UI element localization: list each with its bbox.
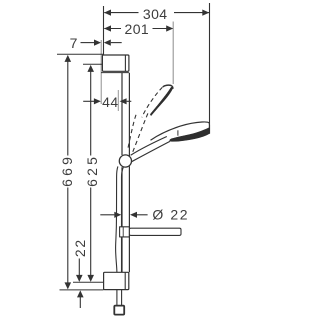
hand shower solid handle lower edge (132, 141, 170, 161)
hand shower dashed head spray face band (150, 87, 173, 116)
svg-text:22: 22 (72, 238, 88, 257)
top bracket lower flange line (101, 72, 129, 74)
extension line bar top level (83, 63, 102, 65)
dimension 22 bottom leader line (79, 297, 81, 309)
hose below bracket (117, 290, 122, 306)
rail tube right edge (128, 73, 130, 272)
hose end nut (114, 306, 124, 315)
dimension 625 line lower (90, 188, 92, 276)
bottom wall bracket (104, 272, 129, 289)
svg-text:4: 4 (110, 94, 118, 110)
dimension 625 line upper (90, 71, 92, 156)
hand shower solid handle upper edge (131, 137, 167, 156)
svg-text:4: 4 (102, 94, 110, 110)
extension line right (304 reference) (209, 3, 211, 134)
top wall bracket (102, 55, 128, 71)
dimension diameter 22 left arrow (114, 212, 121, 218)
svg-text:Ø 22: Ø 22 (152, 207, 189, 223)
hand shower solid head top outline (151, 122, 210, 140)
extension line gray (44 reference) (117, 90, 119, 111)
dimension 7 right arrow (104, 40, 111, 46)
dimension 201 left arrow (104, 25, 111, 31)
hose (116, 166, 124, 272)
svg-text:201: 201 (125, 21, 150, 37)
dimension 669 line upper (67, 61, 69, 156)
dimension diameter 22 line left (100, 214, 114, 216)
wire / rail tube left edge (121, 73, 123, 272)
dimension 7 line left (81, 42, 95, 44)
dimension 304 left arrow (104, 10, 111, 16)
dimension 669 top arrow (65, 55, 72, 62)
dimension diameter 22 line right (137, 214, 148, 216)
node pivot holder (119, 155, 131, 167)
svg-text:625: 625 (84, 154, 100, 187)
dimension 22 leader line (78, 259, 80, 276)
dimension 44 left arrow (83, 100, 94, 102)
dimension 201 line (104, 28, 173, 30)
svg-text:669: 669 (59, 154, 75, 187)
bottom bracket end cap line (124, 272, 126, 289)
hand shower head tick detail (177, 130, 179, 135)
extension line top (bracket top level) (57, 53, 103, 55)
extension line unit bottom level (60, 289, 104, 291)
hand shower dashed handle left edge (128, 115, 136, 150)
dimension 669 bottom arrow (65, 282, 72, 289)
dimension 201 right arrow (166, 25, 173, 31)
dimension 625 top arrow (87, 65, 94, 72)
extension line bar bottom level (73, 281, 104, 283)
hand shower dashed head left outline (142, 87, 163, 117)
top bracket end cap line (124, 55, 126, 71)
soap dish collar inner line (122, 227, 124, 237)
dimension diameter 22 right arrow (130, 212, 137, 218)
dimension 669 line lower (67, 188, 69, 284)
dimension 44 right arrow (120, 98, 127, 104)
dimension 304 right arrow (202, 10, 209, 16)
hand shower solid head spray face band (170, 128, 210, 142)
dimension 7 left arrow (94, 40, 101, 46)
extension line gray (201 reference, shower centerline) (172, 22, 174, 85)
soap dish collar (120, 227, 130, 237)
dimension 304 line (104, 12, 209, 14)
dimension 22 bottom arrow (77, 290, 84, 297)
dimension 625 bottom arrow (87, 275, 94, 282)
wall line (100, 40, 102, 104)
soap dish tray (129, 228, 181, 235)
dimension 44 line right (127, 100, 132, 102)
dimension 22 top arrow (76, 275, 83, 282)
hand shower dashed head tip cap (163, 85, 173, 89)
extension line wall/back (left reference for 304/201/7) (103, 6, 105, 55)
svg-text:304: 304 (143, 6, 168, 22)
dimension 7 line right (111, 42, 122, 44)
hand shower dashed handle right edge (132, 113, 148, 152)
svg-text:7: 7 (70, 35, 78, 51)
